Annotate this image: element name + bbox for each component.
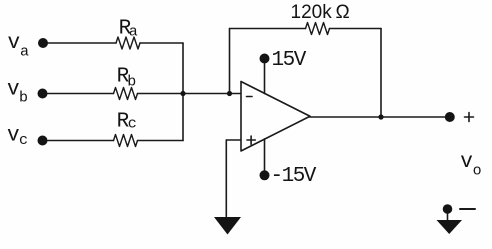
svg-text:15V: 15V <box>272 49 307 72</box>
resistor Rc <box>114 135 138 147</box>
label Rb <box>117 66 137 91</box>
terminal vc <box>38 136 48 146</box>
label Ra <box>119 18 138 41</box>
wire +15V supply to op-amp <box>264 61 266 93</box>
ground noninverting input <box>214 217 241 235</box>
wire noninverting input to ground <box>225 140 227 217</box>
junction node bus <box>180 91 185 96</box>
resistor Rb <box>114 88 138 100</box>
label vo <box>460 151 481 180</box>
junction node feedback tap <box>227 91 232 96</box>
terminal +15V supply <box>260 54 270 64</box>
ground output <box>437 220 463 234</box>
svg-text:120k Ω: 120k Ω <box>291 2 350 23</box>
terminal output plus <box>445 112 455 122</box>
wire feedback tap up <box>229 29 231 94</box>
wire vb to Rb <box>48 93 114 95</box>
wire bus vertical <box>182 43 184 141</box>
label vc <box>7 125 28 150</box>
svg-text:c: c <box>128 116 137 133</box>
resistor Ra <box>116 37 140 49</box>
terminal -15V supply <box>260 170 270 180</box>
wire Ra to bus <box>140 42 183 44</box>
label Rc <box>117 111 137 134</box>
op-amp plus input marking <box>247 136 255 144</box>
svg-text:a: a <box>129 24 138 41</box>
svg-text:b: b <box>127 73 136 90</box>
wire va to Ra <box>48 42 116 44</box>
label va <box>8 32 30 60</box>
wire feedback down to output <box>380 29 382 118</box>
svg-text:-15V: -15V <box>271 165 317 188</box>
wire output minus terminal stub <box>447 212 449 220</box>
svg-text:b: b <box>19 90 28 107</box>
terminal va <box>38 38 48 48</box>
svg-text:v: v <box>7 125 19 148</box>
wire Rc to bus <box>138 140 184 142</box>
svg-text:v: v <box>460 151 472 174</box>
output minus polarity mark <box>460 208 475 210</box>
wire noninverting input <box>226 139 241 141</box>
op-amp minus input marking <box>247 96 253 98</box>
svg-text:v: v <box>7 78 19 101</box>
terminal output minus <box>443 204 453 214</box>
svg-text:c: c <box>19 132 28 149</box>
wire feedback top left <box>230 28 306 30</box>
op-amp U1 <box>241 82 310 152</box>
wire vc to Rc <box>48 140 114 142</box>
label vb <box>7 78 28 106</box>
svg-text:v: v <box>8 32 20 55</box>
junction node feedback output <box>378 114 383 119</box>
wire Rb to op-amp inverting input <box>138 93 241 95</box>
wire feedback top right <box>330 28 382 30</box>
wire -15V supply to op-amp <box>264 139 266 172</box>
terminal vb <box>38 89 48 99</box>
output plus polarity mark <box>465 113 474 122</box>
resistor R feedback 120k <box>306 23 330 35</box>
svg-text:o: o <box>473 162 482 179</box>
wire op-amp output <box>310 116 445 118</box>
svg-text:a: a <box>20 43 29 60</box>
